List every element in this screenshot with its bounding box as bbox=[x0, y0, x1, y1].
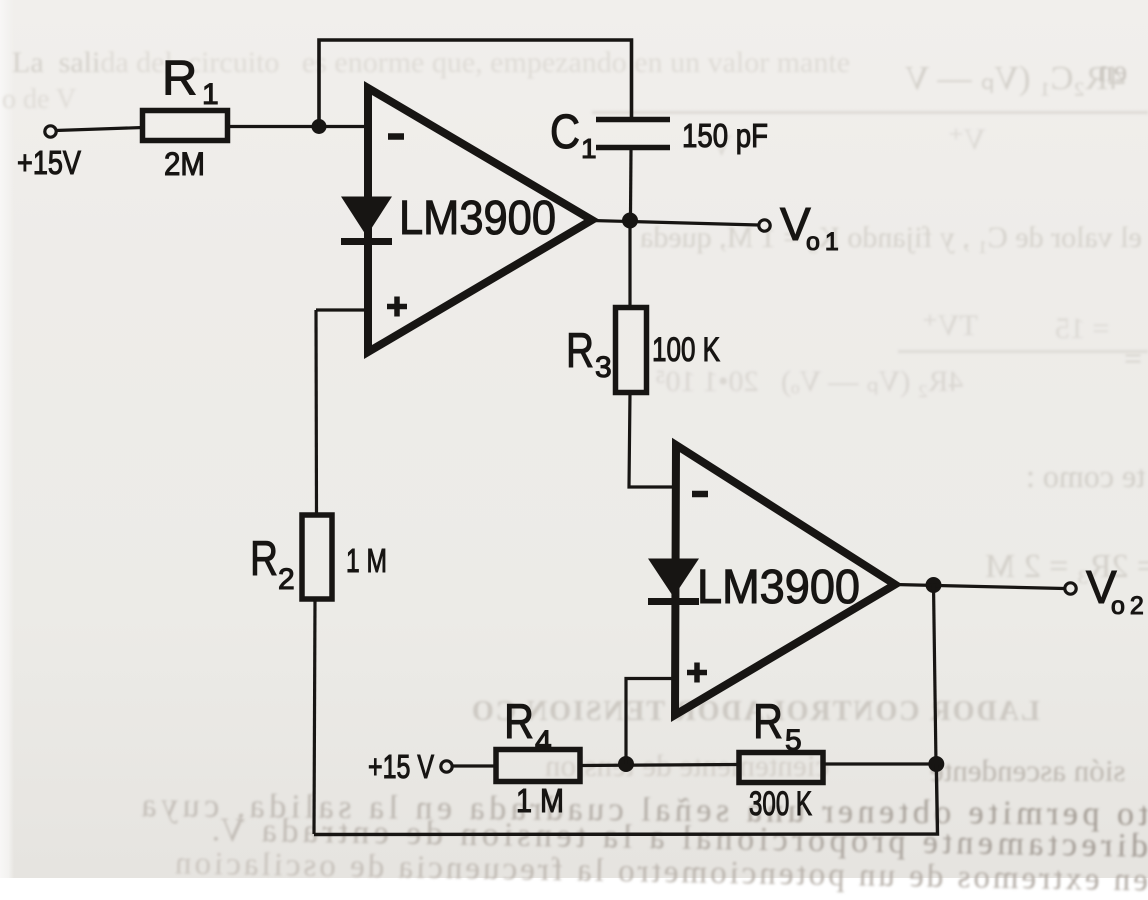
op-amp U1 LM3900 bbox=[368, 88, 592, 352]
svg-text:LM3900: LM3900 bbox=[697, 561, 860, 614]
wire plus input down to R2 bbox=[314, 310, 318, 515]
wire junction up to U2 plus input bbox=[626, 679, 676, 765]
svg-text:150 pF: 150 pF bbox=[682, 117, 768, 154]
resistor R1 bbox=[143, 111, 228, 141]
node +15V bottom terminal bbox=[441, 761, 452, 772]
capacitor C1 bbox=[596, 120, 670, 148]
svg-text:o 1: o 1 bbox=[806, 228, 839, 256]
svg-text:100 K: 100 K bbox=[652, 331, 720, 369]
U1 minus input sign bbox=[388, 133, 404, 140]
svg-text:+15 V: +15 V bbox=[368, 748, 434, 785]
svg-text:2M: 2M bbox=[164, 146, 205, 182]
svg-text:4: 4 bbox=[535, 725, 552, 758]
resistor R4 bbox=[496, 750, 580, 782]
svg-text:R: R bbox=[504, 695, 534, 749]
wire input to R1 bbox=[56, 128, 144, 131]
wire U1 plus input bbox=[316, 308, 368, 311]
resistor R2 bbox=[302, 515, 332, 599]
label R2 bbox=[250, 532, 295, 596]
svg-text:R: R bbox=[250, 532, 278, 586]
node output U2 junction bbox=[926, 577, 942, 593]
node junction A (R1 / feedback) bbox=[312, 119, 327, 134]
wire +15V to R4 bbox=[452, 764, 496, 767]
label C1 bbox=[550, 106, 597, 164]
node Vo1 terminal bbox=[759, 220, 770, 231]
svg-text:R: R bbox=[753, 695, 783, 749]
wire bottom rail bbox=[314, 764, 938, 835]
wire output node to R3 bbox=[628, 227, 631, 307]
svg-text:1: 1 bbox=[581, 133, 597, 164]
svg-text:300 K: 300 K bbox=[749, 785, 812, 823]
svg-text:1 M: 1 M bbox=[516, 782, 564, 819]
node Vo2 terminal bbox=[1065, 583, 1076, 594]
wire U2 output to Vo2 terminal bbox=[895, 585, 1064, 589]
svg-text:R: R bbox=[566, 324, 594, 378]
node output U1 junction bbox=[622, 213, 638, 229]
diode D2 (current mirror symbol inside U2) bbox=[648, 559, 699, 602]
label R3 bbox=[566, 324, 612, 384]
wire C1 to output node bbox=[629, 150, 633, 214]
svg-text:1: 1 bbox=[202, 78, 219, 111]
label R5 bbox=[753, 695, 802, 757]
U2 minus input sign bbox=[692, 491, 708, 498]
bleed-through layer (decorative) bbox=[12, 46, 850, 80]
label Vo2 bbox=[1086, 561, 1144, 620]
node junction R4 / U2 plus leg bbox=[618, 756, 634, 772]
wire R1 to op-amp minus input bbox=[228, 125, 369, 128]
U2 plus input sign bbox=[687, 663, 707, 683]
wire feedback top loop bbox=[319, 40, 632, 127]
diode D1 (current mirror symbol inside U1) bbox=[341, 197, 392, 242]
resistor R5 bbox=[739, 753, 823, 783]
U1 plus input sign bbox=[387, 297, 407, 317]
label Vo1 bbox=[780, 198, 839, 256]
wire R5 to junction bbox=[823, 762, 931, 765]
wire U2 output node down to R5 node bbox=[934, 585, 937, 764]
svg-text:2: 2 bbox=[278, 563, 295, 596]
wire R3 to U2 minus input bbox=[629, 393, 675, 488]
label R4 bbox=[504, 695, 552, 758]
wire R2 down to bottom rail bbox=[314, 599, 315, 834]
svg-text:1 M: 1 M bbox=[346, 542, 387, 579]
svg-text:3: 3 bbox=[595, 351, 612, 384]
node junction R5 / Vo2 leg bbox=[928, 756, 944, 772]
wire U1 output to Vo1 terminal bbox=[592, 221, 759, 226]
resistor R3 bbox=[616, 308, 647, 393]
svg-text:+15V: +15V bbox=[17, 144, 81, 181]
wire R4 to R5 bbox=[580, 765, 739, 766]
svg-text:C: C bbox=[550, 106, 580, 159]
svg-text:5: 5 bbox=[785, 724, 802, 757]
op-amp U2 LM3900 bbox=[675, 445, 895, 715]
node +15V input terminal bbox=[45, 126, 56, 137]
svg-text:LM3900: LM3900 bbox=[399, 192, 556, 245]
svg-text:R: R bbox=[162, 52, 197, 106]
svg-text:o 2: o 2 bbox=[1111, 592, 1144, 620]
